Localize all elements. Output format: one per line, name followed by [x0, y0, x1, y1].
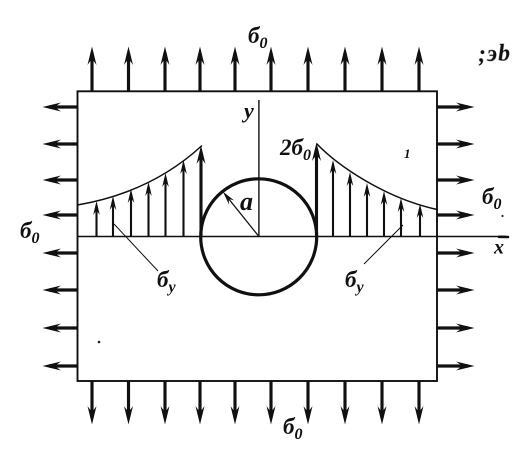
- label 2sigma0: [279, 135, 311, 164]
- left leader line sigma_y: [114, 224, 158, 271]
- left stress curve sigma_y: [78, 146, 203, 206]
- label y: [241, 98, 254, 123]
- x axis: [78, 236, 509, 239]
- top boundary arrows sigma0: [92, 53, 419, 91]
- label x: [493, 237, 504, 259]
- hole circle: [201, 179, 317, 295]
- left label sigma0: [20, 218, 39, 247]
- speck near x label: [501, 215, 503, 217]
- left peak arrow 2sigma0: [199, 152, 202, 236]
- right stress curve sigma_y: [317, 144, 438, 210]
- y axis: [258, 100, 260, 237]
- small speck mark: [404, 146, 411, 161]
- svg-text:a: a: [240, 187, 253, 216]
- right label sigma0: [482, 184, 501, 213]
- right label sigma_y: [345, 267, 364, 296]
- label a: [240, 187, 253, 216]
- bottom boundary arrows sigma0: [92, 381, 419, 418]
- svg-text:x: x: [493, 237, 504, 259]
- right leader line sigma_y: [364, 225, 403, 264]
- tiny dot speck: [98, 341, 101, 344]
- left label sigma_y: [157, 267, 176, 296]
- print-through smudge top right: [478, 40, 512, 67]
- plate outline: [78, 91, 438, 381]
- svg-text:;эb: ;эb: [478, 40, 512, 67]
- right boundary arrows sigma0: [437, 107, 468, 366]
- right small stress arrows: [333, 165, 420, 236]
- right peak arrow 2sigma0: [315, 149, 318, 236]
- top label sigma0: [248, 23, 267, 52]
- bottom label sigma0: [283, 414, 302, 443]
- left small stress arrows: [97, 165, 184, 236]
- left boundary arrows sigma0: [49, 107, 78, 366]
- svg-text:1: 1: [404, 146, 411, 161]
- radius arrow a: [226, 196, 259, 237]
